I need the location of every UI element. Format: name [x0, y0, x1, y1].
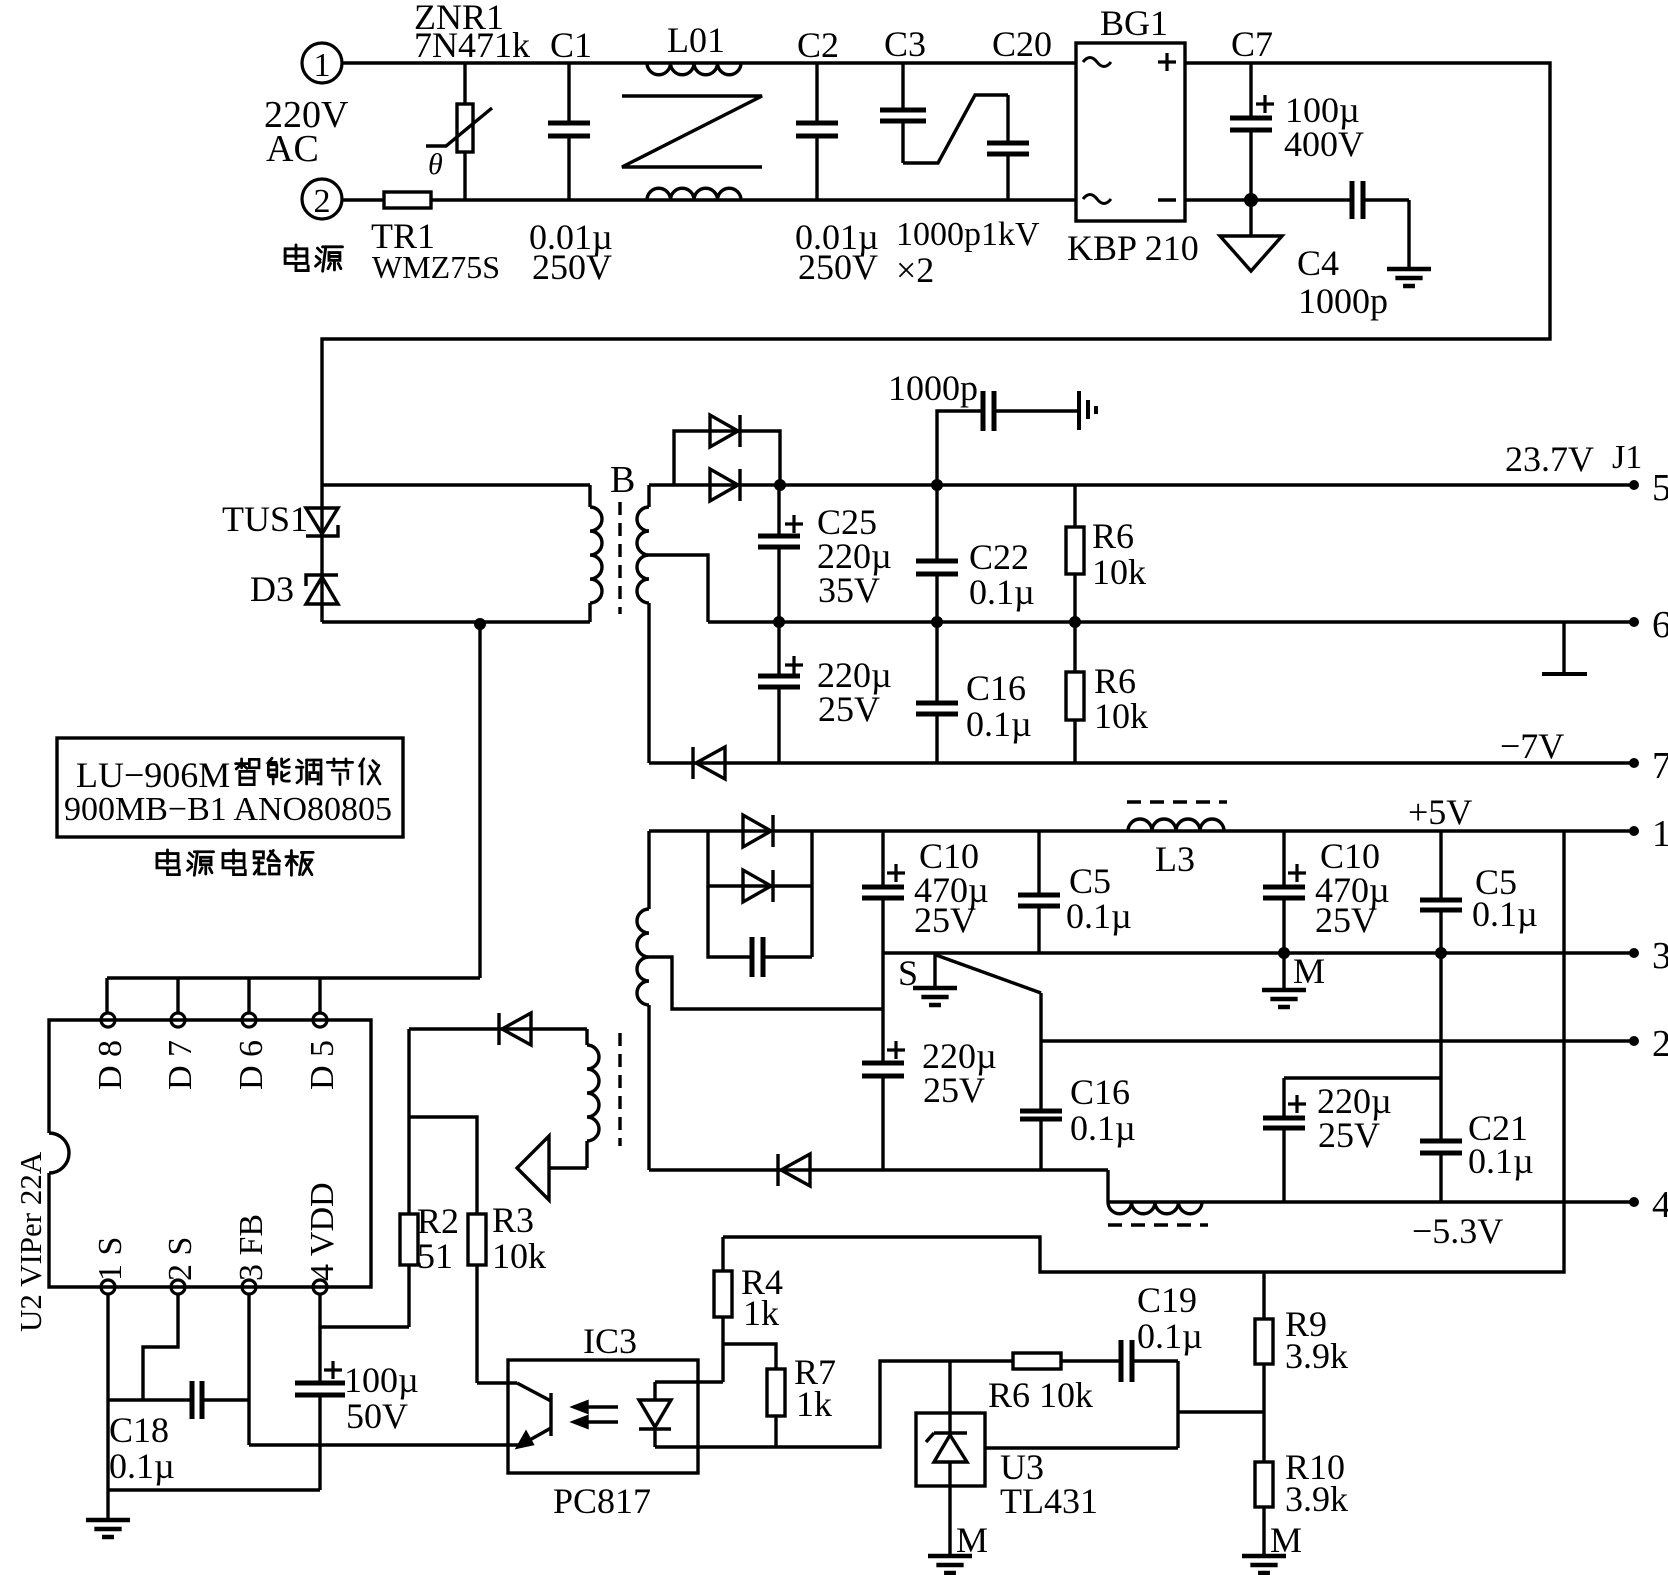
rectifier diode D lower (23.7V)	[710, 469, 740, 501]
wire 220u top to C21 column	[1284, 1076, 1441, 1079]
svg-text:0.1µ: 0.1µ	[966, 704, 1032, 744]
svg-text:+5V: +5V	[1408, 792, 1472, 832]
transformer B secondary 1 winding	[637, 485, 649, 763]
svg-text:1k: 1k	[743, 1293, 779, 1333]
svg-text:C16: C16	[966, 668, 1026, 708]
U2 bottom pin circles 1S 2S 3FB 4VDD	[101, 1280, 327, 1294]
label B	[610, 459, 635, 501]
svg-text:R6: R6	[1092, 516, 1134, 556]
IC3 LED	[639, 1382, 671, 1447]
wire +5V feedback column right	[723, 831, 1564, 1272]
svg-text:3: 3	[1652, 935, 1668, 977]
svg-text:10k: 10k	[1094, 696, 1148, 736]
pin labels D8 D7 D6 D5	[92, 1040, 341, 1090]
capacitor C25 220u 35V electrolytic	[758, 485, 892, 622]
shield link diagonal to pin2 line	[936, 955, 1041, 993]
svg-text:7N471k: 7N471k	[414, 25, 530, 65]
svg-text:D 7: D 7	[162, 1040, 199, 1090]
chassis ground on common rail	[1542, 622, 1587, 674]
capacitor C16 0.1u (pin2 column)	[1070, 1072, 1136, 1148]
pin labels 1S 2S 3FB 4VDD	[92, 1182, 341, 1281]
svg-text:L3: L3	[1155, 839, 1195, 879]
svg-text:25V: 25V	[818, 689, 880, 729]
inductor L3	[1127, 802, 1227, 879]
svg-text:M: M	[1270, 1520, 1302, 1560]
svg-text:KBP 210: KBP 210	[1067, 228, 1199, 268]
wire C3 to C20 link	[903, 95, 1008, 163]
wire AC line 1	[342, 61, 1076, 64]
wire pin 3FB down and right to IC3	[249, 1294, 519, 1445]
ground for U2 source	[86, 1520, 130, 1537]
svg-text:M: M	[1293, 951, 1325, 991]
snubber capacitor across +5V diodes	[708, 886, 812, 977]
wire C19 node to REF and divider	[985, 1361, 1264, 1448]
wire aux tap to R3	[409, 1117, 477, 1214]
capacitor C5 0.1u (right)	[1420, 831, 1538, 953]
label +5V / pin 1	[1408, 792, 1668, 855]
junction dot C7/C4/ground node	[1244, 193, 1258, 207]
svg-text:AC: AC	[266, 128, 319, 170]
ground M below rail 3	[1262, 951, 1325, 1007]
svg-text:0.1µ: 0.1µ	[1070, 1108, 1136, 1148]
svg-text:1000p: 1000p	[888, 368, 978, 408]
terminal 1 (AC input pin 1)	[302, 43, 342, 84]
TVS diode TUS1	[222, 499, 338, 539]
svg-text:IC3: IC3	[583, 1321, 637, 1361]
svg-text:C5: C5	[1069, 861, 1111, 901]
svg-text:1000p1kV: 1000p1kV	[896, 216, 1040, 253]
wire secondary2 center tap	[649, 957, 883, 1009]
svg-text:1 S: 1 S	[92, 1237, 129, 1281]
svg-text:23.7V: 23.7V	[1505, 439, 1594, 479]
svg-text:35V: 35V	[818, 570, 880, 610]
resistor R10 3.9k	[1255, 1412, 1348, 1556]
label dianyuan dianluban (power circuit board)	[157, 850, 179, 875]
info box LU-906M	[57, 738, 403, 837]
optocoupler IC3 PC817 box	[508, 1321, 698, 1521]
svg-text:6: 6	[1652, 604, 1668, 646]
U2 top pin circles D8 D7 D6 D5	[101, 1013, 327, 1027]
svg-text:100µ: 100µ	[344, 1360, 419, 1400]
resistor R2 51	[400, 1201, 459, 1327]
svg-text:R6 10k: R6 10k	[988, 1375, 1093, 1415]
svg-text:TUS1: TUS1	[222, 499, 308, 539]
wire pin 4VDD to R2 node	[320, 1294, 409, 1327]
resistor R9 3.9k	[1255, 1272, 1348, 1412]
svg-text:10k: 10k	[1092, 552, 1146, 592]
svg-text:D 5: D 5	[304, 1040, 341, 1090]
wire R4 node to R7	[723, 1344, 776, 1369]
aux rectifier diode	[409, 1013, 587, 1045]
wire BG1 - output line	[1185, 198, 1352, 201]
label -7V / pin 7	[1500, 726, 1668, 787]
wire pin 2S jog	[143, 1294, 178, 1400]
svg-text:3.9k: 3.9k	[1285, 1479, 1348, 1519]
capacitor C5 0.1u (left)	[1018, 831, 1132, 953]
svg-text:−5.3V: −5.3V	[1412, 1211, 1503, 1251]
capacitor C3 1000p	[880, 24, 926, 163]
svg-text:7: 7	[1652, 745, 1668, 787]
bridge rectifier BG1 KBP 210	[1067, 3, 1199, 268]
aux winding bottom arrow to source	[517, 1136, 587, 1200]
wire aux dc node to R2	[407, 1029, 410, 1214]
svg-text:10k: 10k	[492, 1236, 546, 1276]
svg-text:C4: C4	[1297, 243, 1339, 283]
rectifier diode D upper (+5V)	[743, 815, 773, 847]
capacitor C22 0.1u	[916, 485, 1035, 622]
terminal 2 (AC input pin 2)	[302, 179, 342, 220]
svg-text:D 6: D 6	[233, 1040, 270, 1090]
svg-text:C1: C1	[550, 25, 592, 65]
svg-text:4 VDD: 4 VDD	[304, 1182, 341, 1281]
svg-text:0.1µ: 0.1µ	[109, 1446, 175, 1486]
svg-text:θ: θ	[428, 148, 443, 181]
wire LED anode to R4 node	[655, 1380, 723, 1383]
capacitor C20 1000p	[987, 24, 1052, 200]
svg-text:25V: 25V	[1315, 900, 1377, 940]
junction dots common rail	[773, 616, 1081, 628]
wire primary clamp vertical	[320, 485, 323, 622]
capacitor 220u 25V electrolytic (right lower)	[1263, 1078, 1392, 1202]
svg-text:0.1µ: 0.1µ	[969, 572, 1035, 612]
resistor R7 1k	[767, 1352, 836, 1447]
capacitor 100u 50V electrolytic at VDD	[295, 1327, 419, 1490]
svg-text:M: M	[956, 1520, 988, 1560]
label dianyuan (power) under terminal 2	[285, 245, 308, 271]
svg-text:2: 2	[1652, 1023, 1668, 1065]
svg-text:250V: 250V	[798, 247, 878, 287]
capacitor C4 1000p	[1297, 181, 1409, 321]
svg-text:J1: J1	[1612, 439, 1642, 476]
svg-text:0.1µ: 0.1µ	[1472, 894, 1538, 934]
svg-text:25V: 25V	[923, 1070, 985, 1110]
svg-text:C7: C7	[1231, 24, 1273, 64]
IC3 light arrows	[574, 1402, 618, 1427]
svg-text:C22: C22	[969, 537, 1029, 577]
svg-text:900MB−B1 ANO80805: 900MB−B1 ANO80805	[64, 791, 392, 828]
svg-text:×2: ×2	[896, 250, 934, 290]
wire LED cathode to TL431	[655, 1361, 1013, 1447]
wire secondary1 upper diode branch	[674, 431, 780, 485]
svg-text:B: B	[610, 459, 635, 501]
svg-text:51: 51	[417, 1236, 453, 1276]
svg-text:S: S	[898, 953, 918, 993]
svg-text:25V: 25V	[914, 900, 976, 940]
wire drain down to U2	[478, 622, 481, 978]
shunt regulator U3 TL431	[916, 1361, 1098, 1556]
rectifier diode D (-7V)	[693, 747, 725, 779]
wire common rail (pin 6)	[708, 620, 1634, 623]
wire primary top	[322, 483, 590, 486]
capacitor C10 470u 25V (right)	[1263, 831, 1390, 953]
wire rail pin 2	[1041, 1023, 1668, 1065]
svg-text:C18: C18	[109, 1410, 169, 1450]
capacitor C7 100u 400V electrolytic	[1230, 24, 1364, 200]
transformer B core (upper)	[618, 502, 621, 614]
svg-text:1000p: 1000p	[1298, 281, 1388, 321]
chassis ground triangle below C7	[1220, 200, 1282, 271]
capacitor 1000p to chassis (secondary)	[888, 368, 1096, 491]
label 1000p1kV x2	[896, 216, 1040, 290]
transformer B secondary 2 winding	[637, 831, 649, 1170]
IC3 phototransistor	[477, 1383, 551, 1447]
wire VDD cap bottom to source	[108, 1488, 320, 1491]
capacitor C16 0.1u (-7V)	[916, 622, 1032, 763]
resistor R6 10k (lower)	[1066, 622, 1148, 763]
svg-text:U2 VIPer 22A: U2 VIPer 22A	[13, 1151, 48, 1332]
svg-text:2 S: 2 S	[162, 1237, 199, 1281]
svg-text:R2: R2	[417, 1201, 459, 1241]
svg-text:25V: 25V	[1318, 1115, 1380, 1155]
rectifier diode D lower (+5V)	[743, 870, 773, 902]
capacitor C21 0.1u	[1420, 953, 1534, 1202]
pin 6 label	[1629, 604, 1668, 646]
inductor L01 common-mode choke	[622, 20, 762, 200]
pin 4 label and -5.3V	[1412, 1184, 1668, 1251]
resistor R3 10k	[468, 1200, 546, 1383]
svg-text:50V: 50V	[346, 1396, 408, 1436]
svg-text:WMZ75S: WMZ75S	[372, 249, 500, 285]
svg-text:0.1µ: 0.1µ	[1468, 1141, 1534, 1181]
svg-text:C16: C16	[1070, 1072, 1130, 1112]
rectifier diode D upper (23.7V)	[710, 415, 740, 447]
svg-text:0.1µ: 0.1µ	[1066, 896, 1132, 936]
capacitor C2 0.01u 250V	[795, 25, 879, 287]
wire common rail M (pin 3)	[883, 951, 1634, 954]
transformer B core (lower)	[618, 1033, 621, 1146]
wire +5V rail (pin 1)	[649, 829, 1634, 832]
svg-text:1k: 1k	[796, 1384, 832, 1424]
svg-text:BG1: BG1	[1100, 3, 1168, 43]
diode D3	[250, 569, 338, 609]
ground M under TL431	[928, 1520, 988, 1573]
resistor R6 10k (feedback)	[988, 1353, 1119, 1415]
svg-text:R3: R3	[492, 1200, 534, 1240]
wire U2 drain pins bus	[107, 978, 480, 1013]
ground M under R10	[1242, 1520, 1302, 1573]
wire secondary2 upper diode branch	[708, 831, 812, 957]
svg-text:1: 1	[314, 47, 331, 84]
resistor R6 10k (upper)	[1066, 485, 1146, 622]
junction dots on M rail	[1278, 947, 1447, 959]
shield S ground and link	[898, 953, 957, 1005]
capacitor C1 0.01u 250V	[529, 25, 613, 287]
wire secondary1 top to rectifier	[649, 483, 1634, 486]
info box text line 1 LU-906M (latin part)	[76, 755, 230, 795]
svg-text:LU−906M: LU−906M	[76, 755, 230, 795]
svg-text:1: 1	[1652, 813, 1668, 855]
svg-text:D 8: D 8	[92, 1040, 129, 1090]
wire secondary1 center tap to common	[649, 555, 708, 622]
earth ground after C4	[1387, 200, 1431, 286]
svg-text:R6: R6	[1094, 661, 1136, 701]
junction dot primary switch node	[474, 618, 486, 630]
resistor R4 1k	[714, 1237, 783, 1382]
capacitor C10 470u 25V (left)	[862, 831, 989, 953]
svg-text:4: 4	[1652, 1184, 1668, 1226]
resistor TR1 fusible WMZ75S	[371, 192, 500, 285]
svg-text:−7V: −7V	[1500, 726, 1564, 766]
inductor L4 and rail pin 4	[1108, 1170, 1634, 1225]
wire BG1 + output to right rail	[322, 63, 1550, 485]
label U2 VIPer 22A	[13, 1151, 48, 1332]
wire pin 1S to ground	[106, 1294, 109, 1520]
junction dot 23.7V rail	[774, 479, 786, 491]
wire -5.3V return line	[649, 1168, 1108, 1171]
svg-text:400V: 400V	[1284, 124, 1364, 164]
svg-text:D3: D3	[250, 569, 294, 609]
wire primary bottom	[322, 620, 590, 623]
svg-text:3 FB: 3 FB	[233, 1214, 270, 1281]
label 23.7V / J1 / pin 5	[1505, 439, 1668, 509]
wire AC line 2	[341, 198, 1076, 201]
svg-text:L01: L01	[667, 20, 725, 60]
wire -7V rail (pin 7)	[649, 761, 1634, 764]
svg-text:3.9k: 3.9k	[1285, 1336, 1348, 1376]
capacitor 220u 25V electrolytic (-7V)	[758, 622, 892, 763]
rectifier diode D (-5.3V)	[778, 1154, 810, 1186]
label 220V AC	[264, 94, 349, 170]
transformer B primary winding	[590, 485, 602, 622]
varistor ZNR1 7N471k	[414, 0, 530, 200]
svg-text:PC817: PC817	[553, 1481, 651, 1521]
U2 VIPer22A IC box	[49, 1020, 371, 1287]
svg-text:C2: C2	[797, 25, 839, 65]
svg-text:C19: C19	[1137, 1280, 1197, 1320]
pin 3 label	[1629, 935, 1668, 977]
transformer B aux winding	[587, 1029, 599, 1168]
capacitor C19 0.1u	[1121, 1280, 1203, 1382]
svg-text:5: 5	[1652, 467, 1668, 509]
wire pin2 column with C16	[1020, 993, 1062, 1170]
capacitor C18 0.1u	[108, 1381, 249, 1486]
capacitor 220u 25V electrolytic (left lower)	[862, 953, 997, 1170]
info box CJK zhineng tiaojieyi	[236, 759, 259, 785]
svg-text:250V: 250V	[532, 247, 612, 287]
info box text line2 900MB-B1 ANO80805	[64, 791, 392, 828]
svg-text:0.1µ: 0.1µ	[1137, 1316, 1203, 1356]
svg-text:2: 2	[314, 183, 331, 220]
svg-text:TL431: TL431	[1000, 1481, 1098, 1521]
svg-text:C3: C3	[884, 24, 926, 64]
svg-text:C20: C20	[992, 24, 1052, 64]
